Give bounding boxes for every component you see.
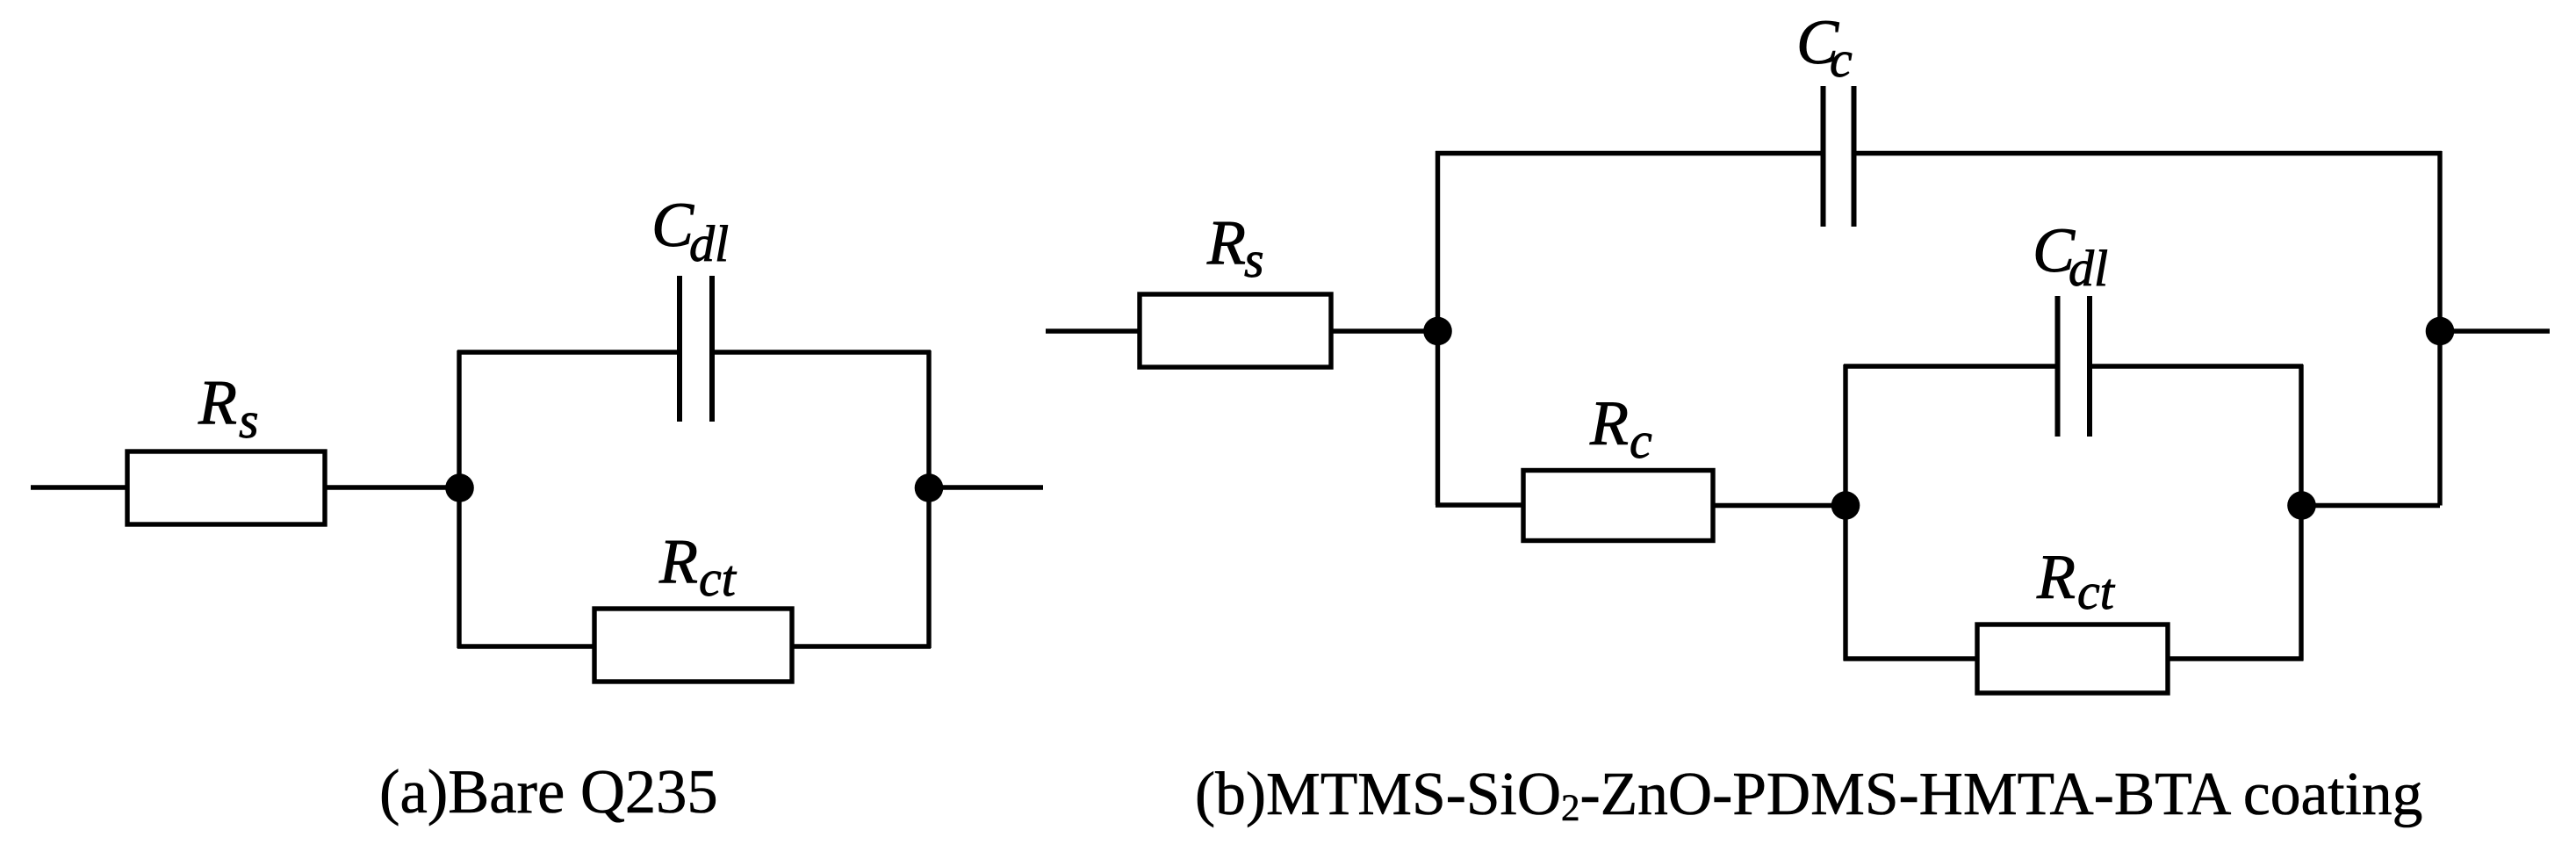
label Cc (b) — [1796, 7, 1853, 88]
resistor Rct (a) box — [594, 609, 792, 682]
wire: circuit (b) outer loop right vertical — [2437, 151, 2442, 506]
wire: circuit (b) inner loop right vertical — [2299, 365, 2303, 661]
label Rct (b) — [2036, 542, 2116, 621]
svg-text:(b)MTMS-SiO2-ZnO-PDMS-HMTA-BTA: (b)MTMS-SiO2-ZnO-PDMS-HMTA-BTA coating — [1195, 761, 2422, 829]
label Cdl (b) — [2033, 215, 2108, 297]
node: circuit (b) inner loop right junction — [2287, 491, 2316, 520]
wire: circuit (b) inner loop top right segment — [2090, 364, 2303, 368]
wire: circuit (b) Rc to node B2 — [1713, 503, 1846, 508]
resistor Rc (b) box — [1523, 471, 1713, 541]
svg-text:R: R — [1206, 207, 1246, 278]
capacitor Cdl (a) left plate — [677, 276, 682, 422]
svg-text:c: c — [1630, 412, 1652, 469]
wire: circuit (b) outer loop left vertical — [1436, 151, 1440, 505]
svg-text:R: R — [1589, 388, 1629, 458]
wire: circuit (a) right lead — [929, 485, 1043, 489]
wire: circuit (b) left lead — [1046, 328, 1140, 333]
wire: circuit (a) loop right vertical — [926, 350, 931, 648]
label Rs (b) — [1206, 207, 1264, 288]
wire: circuit (b) middle branch left segment — [1436, 502, 1524, 507]
wire: circuit (b) outer loop top left segment — [1436, 151, 1823, 155]
resistor Rs (b) box — [1140, 294, 1331, 367]
node: circuit (a) left junction — [445, 473, 474, 502]
svg-text:dl: dl — [689, 215, 729, 272]
wire: circuit (b) Rs to node B1 — [1331, 328, 1437, 333]
wire: circuit (b) inner loop bottom left segment — [1844, 656, 1978, 660]
capacitor Cc (b) right plate — [1852, 86, 1857, 227]
svg-text:ct: ct — [2077, 563, 2116, 620]
node: circuit (b) junction after Rc — [1831, 491, 1860, 520]
resistor Rct (b) box — [1977, 624, 2168, 693]
capacitor Cdl (b) left plate — [2055, 296, 2061, 437]
wire: circuit (a) loop bottom left segment — [457, 644, 595, 648]
wire: circuit (b) outer loop top right segment — [1856, 151, 2442, 155]
wire: circuit (a) loop top right segment — [715, 350, 931, 354]
svg-text:s: s — [1244, 231, 1264, 288]
svg-text:c: c — [1830, 31, 1853, 88]
svg-text:s: s — [239, 392, 259, 449]
label Cdl (a) — [651, 190, 729, 272]
wire: circuit (b) inner loop to outer right vertical — [2301, 503, 2440, 508]
svg-text:(a)Bare Q235: (a)Bare Q235 — [379, 758, 718, 827]
wire: circuit (a) Rs to node A — [325, 485, 459, 489]
svg-text:ct: ct — [699, 550, 738, 607]
svg-text:R: R — [2036, 542, 2076, 612]
wire: circuit (b) inner loop bottom right segment — [2167, 656, 2303, 660]
node: circuit (a) right junction — [915, 473, 944, 502]
svg-text:R: R — [658, 526, 698, 596]
capacitor Cdl (b) right plate — [2087, 296, 2092, 437]
label Rct (a) — [658, 526, 738, 607]
label Rs (a) — [198, 367, 259, 449]
wire: circuit (a) loop top left segment — [457, 350, 678, 354]
node: circuit (b) right junction on outer vertical — [2426, 317, 2455, 346]
label Rc (b) — [1589, 388, 1652, 470]
wire: circuit (a) loop left vertical — [457, 350, 461, 648]
resistor Rs (a) box — [127, 451, 325, 524]
capacitor Cdl (a) right plate — [709, 276, 715, 422]
svg-text:dl: dl — [2069, 240, 2108, 297]
wire: circuit (a) left lead — [31, 485, 128, 489]
svg-text:C: C — [651, 190, 694, 260]
wire: circuit (b) right lead — [2440, 328, 2550, 333]
wire: circuit (a) loop bottom right segment — [791, 644, 931, 648]
svg-text:R: R — [198, 367, 237, 437]
wire: circuit (b) inner loop top left segment — [1844, 364, 2057, 368]
capacitor Cc (b) left plate — [1821, 86, 1826, 227]
wire: circuit (b) inner loop left vertical — [1843, 365, 1847, 661]
node: circuit (b) junction after Rs — [1423, 317, 1452, 346]
